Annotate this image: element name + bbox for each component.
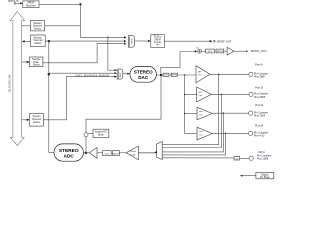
svg-text:Conver: Conver — [154, 41, 162, 44]
svg-text:VOL: VOL — [208, 51, 213, 53]
svg-text:SPDIF IN: SPDIF IN — [8, 0, 19, 3]
svg-text:Select: Select — [33, 121, 40, 124]
svg-text:VOL: VOL — [105, 153, 110, 155]
svg-text:Select: Select — [33, 64, 40, 67]
svg-text:STEREO: STEREO — [134, 70, 153, 75]
svg-text:Port A: Port A — [255, 63, 263, 67]
svg-text:HP: HP — [199, 92, 203, 94]
svg-text:AC Beep: AC Beep — [260, 176, 271, 179]
svg-text:Out: Out — [199, 133, 203, 136]
svg-text:Pins 2504: Pins 2504 — [254, 115, 266, 118]
svg-text:Receiver: Receiver — [26, 4, 36, 7]
svg-text:Port E: Port E — [255, 103, 263, 107]
svg-text:PCM to: PCM to — [154, 36, 162, 39]
svg-text:Pins 4-32: Pins 4-32 — [254, 135, 265, 138]
svg-text:MUTE: MUTE — [217, 51, 224, 53]
svg-text:Beep: Beep — [98, 134, 104, 137]
svg-text:Port D: Port D — [255, 85, 263, 89]
svg-text:Select: Select — [34, 27, 41, 30]
svg-text:ADC: ADC — [63, 154, 74, 160]
svg-text:SPDIF OUT: SPDIF OUT — [217, 39, 232, 43]
svg-text:HP: HP — [198, 71, 202, 73]
svg-text:Boost: Boost — [131, 150, 137, 153]
svg-text:Port B: Port B — [255, 124, 263, 128]
svg-text:Status: Status — [34, 42, 42, 45]
svg-text:DAC: DAC — [138, 75, 149, 80]
svg-text:MUX: MUX — [132, 38, 134, 43]
svg-text:DAC BYPASS MODE: DAC BYPASS MODE — [76, 73, 110, 77]
svg-text:Out: Out — [198, 74, 202, 77]
svg-text:PGA: PGA — [131, 153, 136, 156]
svg-text:ter: ter — [156, 44, 159, 47]
svg-text:MUTE: MUTE — [171, 75, 177, 77]
svg-text:40-: 40- — [196, 48, 199, 50]
svg-text:STEREO: STEREO — [59, 148, 79, 154]
svg-text:Pins 3B67: Pins 3B67 — [254, 75, 266, 78]
svg-text:Out: Out — [199, 113, 203, 116]
svg-text:Pins 1808: Pins 1808 — [257, 158, 269, 161]
svg-text:Out: Out — [199, 94, 203, 97]
svg-text:MUX: MUX — [120, 72, 122, 77]
svg-text:Pins 3806: Pins 3806 — [254, 96, 266, 99]
svg-text:MUTE: MUTE — [113, 153, 120, 155]
svg-text:HD AUDIO LINK: HD AUDIO LINK — [8, 74, 11, 93]
svg-text:MONO_OUT: MONO_OUT — [251, 49, 267, 53]
